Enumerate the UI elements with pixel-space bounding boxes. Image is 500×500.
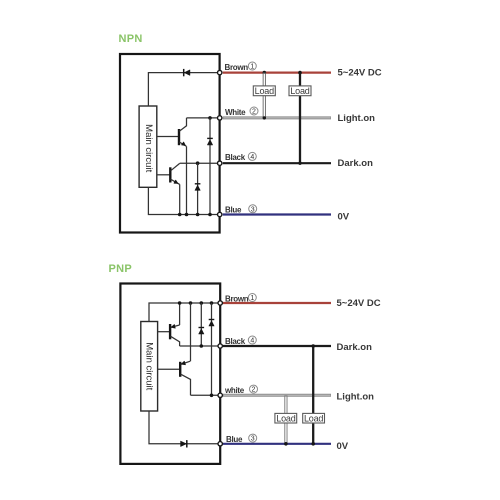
wire: load L2 drop (NPN) — [299, 73, 301, 164]
junction dot zener D4 / supply rail (PNP) — [200, 301, 204, 305]
diode D6 on 0V return (PNP) — [181, 440, 187, 447]
load L2 (NPN) — [289, 86, 311, 96]
svg-text:Brown: Brown — [225, 63, 249, 72]
label Black 4 (NPN) — [225, 152, 256, 162]
transistor Q3 PNP (Dark.on output) — [170, 324, 180, 346]
label Blue 3 (NPN) — [225, 205, 257, 215]
svg-text:3: 3 — [251, 206, 255, 213]
wire: zener D4 branch (PNP) — [200, 303, 202, 346]
zener diode D4 (PNP) — [199, 328, 205, 335]
terminal White pin2 (NPN) — [218, 116, 222, 120]
junction dot load L4 / 0V (PNP) — [311, 442, 315, 446]
junction dot L4/Black (PNP) — [311, 344, 315, 348]
junction dot load L3 / 0V (PNP) — [284, 442, 288, 446]
wire: white output gray (PNP) — [223, 394, 331, 397]
svg-text:Dark.on: Dark.on — [337, 342, 373, 353]
junction dot zener D2 / 0V rail (NPN) — [208, 213, 212, 217]
junction dot Q1 emitter / 0V rail (NPN) — [185, 213, 189, 217]
svg-text:0V: 0V — [338, 211, 350, 222]
svg-text:0V: 0V — [337, 441, 349, 452]
label Black 4 (PNP) — [225, 336, 256, 346]
svg-text:Light.on: Light.on — [338, 113, 376, 124]
transistor Q4 PNP (Light.on output) — [180, 361, 190, 395]
junction dot Q2 emitter / 0V rail (NPN) — [178, 213, 182, 217]
wire: White output gray (NPN) — [223, 116, 331, 119]
wire: load L1 drop (NPN) — [263, 73, 266, 118]
svg-text:Main circuit: Main circuit — [144, 342, 155, 390]
wire: Black output (PNP) — [223, 345, 331, 347]
wire: U1 top to Brown terminal (NPN) — [148, 73, 219, 106]
zener diode D2 (NPN) — [207, 138, 213, 145]
wire: white row inside box (PNP) — [191, 394, 220, 396]
main circuit block U2 (PNP) — [141, 322, 158, 412]
wire: zener D5 branch (PNP) — [211, 303, 213, 395]
svg-text:5~24V DC: 5~24V DC — [338, 68, 382, 79]
junction dot zener D3 / 0V rail (NPN) — [196, 213, 200, 217]
wire: Blue 0V (PNP) — [223, 443, 331, 445]
svg-text:Blue: Blue — [226, 435, 243, 444]
svg-text:Blue: Blue — [225, 206, 242, 215]
label White 2 (NPN) — [225, 107, 258, 117]
svg-text:Black: Black — [225, 153, 246, 162]
main circuit block U1 (NPN) — [139, 106, 157, 187]
label Brown 1 (NPN) — [225, 62, 257, 72]
svg-text:2: 2 — [252, 109, 256, 116]
junction dot zener D5 / supply rail (PNP) — [210, 301, 214, 305]
zener diode D3 (NPN) — [195, 184, 201, 191]
wire: Q4 emitter up to supply (PNP) — [190, 303, 192, 361]
junction dot Q4 emitter / supply rail (PNP) — [189, 301, 193, 305]
wire: Brown supply red (NPN) — [223, 71, 331, 73]
svg-text:Brown: Brown — [225, 294, 249, 303]
zener diode D5 (PNP) — [209, 320, 215, 327]
svg-text:Main circuit: Main circuit — [143, 124, 154, 172]
junction dot load L2 / supply (NPN) — [298, 71, 302, 75]
terminal Brown pin1 (PNP) — [218, 301, 222, 305]
svg-text:4: 4 — [250, 154, 254, 161]
svg-text:PNP: PNP — [109, 263, 133, 275]
junction dot Black/zener (PNP) — [200, 344, 204, 348]
wire: Q1 base (NPN) — [157, 136, 179, 138]
load L1 (NPN) — [253, 86, 275, 96]
terminal Blue pin3 (NPN) — [218, 212, 222, 216]
wire: zener D3 branch (NPN) — [197, 163, 199, 214]
svg-text:White: White — [225, 108, 246, 117]
diode D1 reverse-polarity protection (NPN) — [184, 69, 190, 76]
wire: Black output (NPN) — [223, 162, 331, 164]
sensor outline box (PNP) — [120, 284, 220, 464]
svg-text:NPN: NPN — [119, 33, 143, 45]
svg-text:1: 1 — [250, 64, 254, 71]
wire: Brown supply red (PNP) — [223, 302, 331, 304]
wire: load L3 drop gray (PNP) — [284, 395, 287, 444]
wire: U2 top to Brown supply rail (PNP) — [149, 303, 220, 322]
wire: Q1 emitter down to 0V rail (NPN) — [186, 146, 188, 214]
load L4 (PNP) — [303, 413, 325, 423]
svg-text:3: 3 — [251, 436, 255, 443]
wire: Q3 base (PNP) — [158, 331, 171, 333]
svg-text:4: 4 — [250, 338, 254, 345]
junction dot White/zener (NPN) — [208, 116, 212, 120]
terminal white pin2 (PNP) — [218, 393, 222, 397]
junction dot load L1 / supply (NPN) — [263, 71, 267, 75]
transistor Q1 NPN (Light.on output) — [179, 118, 187, 146]
svg-text:1: 1 — [250, 295, 254, 302]
load L3 (PNP) — [275, 413, 297, 423]
svg-text:white: white — [224, 386, 245, 395]
sensor outline box (NPN) — [120, 54, 220, 233]
wire: Blue 0V (NPN) — [223, 213, 331, 215]
wire: Black row inside box (PNP) — [180, 345, 220, 347]
wire: Black row inside box (NPN) — [180, 162, 219, 164]
svg-text:Load: Load — [255, 86, 274, 96]
terminal Brown pin1 (NPN) — [218, 70, 222, 74]
wire: load L4 drop (PNP) — [312, 346, 314, 444]
junction dot white/zener (PNP) — [210, 394, 214, 398]
svg-text:Light.on: Light.on — [337, 392, 375, 403]
wire: Q4 base (PNP) — [158, 368, 181, 370]
junction dot L2/Black (NPN) — [298, 162, 301, 165]
wire: U1 bottom to Blue terminal 0V rail (NPN) — [148, 187, 219, 214]
terminal Blue pin3 (PNP) — [218, 442, 222, 446]
svg-text:Load: Load — [290, 86, 309, 96]
terminal Black pin4 (PNP) — [218, 344, 222, 348]
svg-text:5~24V DC: 5~24V DC — [337, 298, 381, 309]
label Brown 1 (PNP) — [225, 294, 256, 304]
junction dot Q3 emitter / supply rail (PNP) — [178, 301, 182, 305]
wire: Q2 emitter down to 0V rail (NPN) — [179, 184, 181, 214]
wire: White row inside box (NPN) — [187, 117, 220, 119]
svg-text:Load: Load — [276, 413, 295, 423]
svg-text:Dark.on: Dark.on — [338, 158, 374, 169]
label Blue 3 (PNP) — [226, 434, 257, 444]
junction dot L1/White (NPN) — [263, 116, 266, 119]
wire: zener D2 branch (NPN) — [209, 118, 211, 215]
label white 2 (PNP) — [224, 385, 258, 395]
wire: Q3 emitter up to supply (PNP) — [179, 303, 181, 325]
transistor Q2 NPN (Dark.on output) — [170, 163, 179, 184]
junction dot Black/zener (NPN) — [196, 161, 200, 165]
svg-text:2: 2 — [252, 387, 256, 394]
wire: U2 bottom to Blue terminal (PNP) — [149, 411, 220, 444]
wire: Q2 base (NPN) — [157, 174, 171, 176]
svg-text:Load: Load — [304, 413, 323, 423]
svg-text:Black: Black — [225, 337, 246, 346]
terminal Black pin4 (NPN) — [218, 161, 222, 165]
